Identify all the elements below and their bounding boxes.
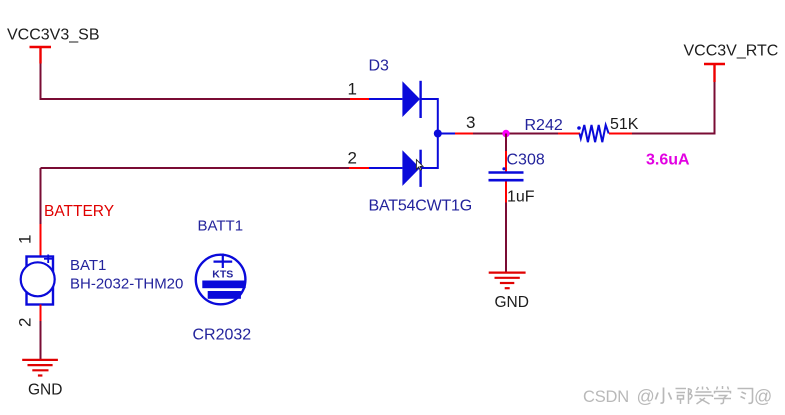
watermark glyph guo [676,388,693,404]
wire from D3B cathode to common node [421,135,438,168]
svg-text:3: 3 [466,113,475,132]
capacitor C308 plates [489,173,524,181]
power symbol VCC3V_RTC [704,64,725,82]
power symbol VCC3V3_SB [30,47,52,64]
capacitor C308 top red lead [505,151,507,172]
svg-text:@: @ [637,387,655,407]
capacitor C308 pin1 dot [502,167,505,170]
wire net 2 down to battery [40,168,42,224]
wire from VCC3V3_SB down to net 1 [41,64,43,100]
svg-text:C308: C308 [507,152,545,169]
wire from tap junction down to C308 [505,134,507,152]
wire from D3A cathode to common node [421,99,438,132]
mouse cursor [416,160,423,171]
watermark glyph xue [714,386,731,404]
svg-text:KTS: KTS [212,269,233,281]
svg-text:51K: 51K [610,116,639,133]
svg-text:3.6uA: 3.6uA [646,152,690,169]
svg-text:CR2032: CR2032 [193,327,252,344]
battery BAT1 pin 1 red lead [40,224,42,257]
diode D3B body [402,150,420,187]
svg-text:@: @ [754,387,772,407]
pin 3 red lead [455,133,473,135]
capacitor C308 bottom red lead [505,182,507,203]
junction dot at D3 common cathode [434,130,442,138]
resistor R242 body zigzag [580,125,609,142]
svg-text:BAT1: BAT1 [70,257,106,274]
battery BAT1 pin 2 red lead [40,305,42,322]
svg-text:BAT54CWT1G: BAT54CWT1G [369,198,473,215]
resistor R242 left red lead [558,133,580,135]
wire from R242 to VCC3V_RTC corner [632,82,715,134]
ground symbol GND under C308 [489,273,526,289]
diode D3A body [402,81,420,118]
svg-text:VCC3V_RTC: VCC3V_RTC [684,43,779,60]
wire net 2 horizontal [41,167,350,169]
svg-text:BH-2032-THM20: BH-2032-THM20 [70,276,183,293]
svg-text:GND: GND [28,382,62,399]
coin cell BATT1 symbol [196,254,246,305]
diode D3A anode lead [369,98,402,100]
wire net 1 horizontal [41,98,351,100]
pin 3 lead blue [438,133,455,135]
svg-text:1: 1 [348,80,357,99]
pin 1 of D3 red lead [350,98,369,100]
svg-text:D3: D3 [369,58,390,75]
junction dot at C308 tap [502,130,509,137]
svg-text:GND: GND [495,294,529,311]
svg-text:VCC3V3_SB: VCC3V3_SB [7,27,100,44]
svg-text:2: 2 [16,318,35,327]
pin 2 of D3 red lead [349,167,369,169]
svg-text:R242: R242 [525,117,563,134]
svg-text:BATT1: BATT1 [198,218,244,235]
wire from C308 down to ground [505,203,507,273]
watermark glyph xiao [656,388,672,404]
svg-text:1uF: 1uF [507,189,535,206]
ground symbol GND under battery [22,360,58,376]
resistor R242 pin1 dot [577,126,581,130]
svg-text:CSDN: CSDN [583,388,629,406]
svg-text:1: 1 [16,235,35,244]
watermark glyph ai [695,387,713,405]
svg-text:BATTERY: BATTERY [44,203,114,220]
wire from battery to ground [40,321,42,359]
diode D3B anode lead [369,167,402,169]
resistor R242 right red lead [609,133,632,135]
wire net 3 from pin 3 to R242 [473,133,558,135]
watermark glyph xi [738,389,753,404]
svg-text:2: 2 [348,149,357,168]
battery holder BAT1 body [21,255,55,305]
